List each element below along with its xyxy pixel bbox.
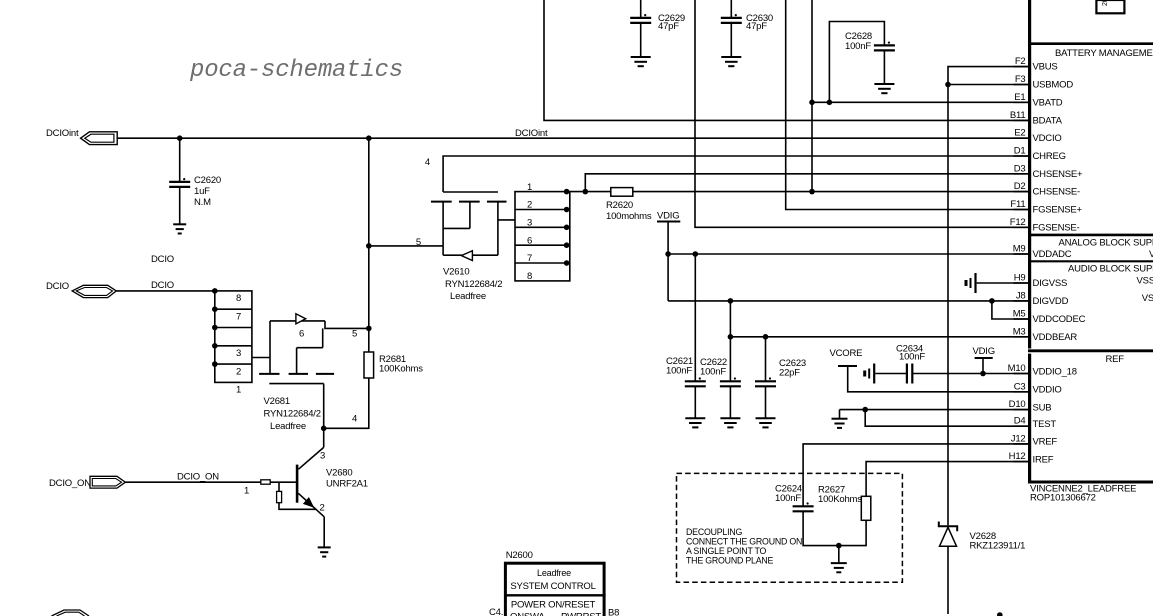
svg-text:poca-schematics: poca-schematics: [189, 57, 403, 84]
IC N2600 system control box: [489, 550, 619, 616]
pin F2 VBUS: [1014, 56, 1058, 73]
svg-text:4: 4: [352, 414, 357, 425]
ground V2680: [318, 547, 331, 556]
wire E1 VBATD row: [811, 101, 1028, 103]
wire D10 SUB row: [840, 407, 1029, 413]
svg-text:M3: M3: [1013, 326, 1026, 337]
svg-text:1uF: 1uF: [194, 186, 210, 197]
svg-text:CHSENSE+: CHSENSE+: [1033, 169, 1084, 180]
svg-text:C3: C3: [1014, 381, 1026, 392]
svg-text:VDIG: VDIG: [973, 346, 995, 357]
svg-text:VDDADC: VDDADC: [1033, 249, 1072, 260]
port partial bottom-left: [52, 610, 90, 616]
label V2681: [264, 396, 321, 432]
svg-text:DCIO: DCIO: [46, 281, 69, 292]
wire DCIOint bus vertical: [366, 138, 372, 328]
svg-text:3: 3: [320, 451, 325, 462]
connector block V2610 pins: [515, 182, 570, 282]
ground C2630: [721, 57, 741, 66]
svg-text:VCORE: VCORE: [830, 348, 863, 359]
svg-text:1: 1: [244, 486, 249, 497]
wire C2628 branch: [827, 22, 885, 106]
IC section headers: [1055, 48, 1153, 365]
svg-text:D3: D3: [1014, 163, 1026, 174]
svg-text:F12: F12: [1010, 217, 1026, 228]
IC top-right small box: [1096, 0, 1124, 13]
svg-text:F11: F11: [1010, 199, 1025, 210]
svg-text:4: 4: [425, 157, 430, 168]
svg-text:ANALOG BLOCK SUPPLY: ANALOG BLOCK SUPPLY: [1059, 237, 1153, 248]
pin D2 CHSENSE-: [1014, 181, 1081, 198]
transistor V2681: [259, 314, 369, 429]
svg-text:M5: M5: [1013, 309, 1026, 320]
wire block to V2681: [252, 357, 270, 359]
ground C2634 left: [865, 364, 875, 384]
svg-text:C4.: C4.: [489, 607, 503, 616]
svg-text:VDCIO: VDCIO: [1033, 133, 1062, 144]
svg-text:Leadfree: Leadfree: [537, 568, 571, 578]
svg-text:6: 6: [299, 329, 304, 340]
svg-text:1: 1: [527, 182, 532, 193]
svg-text:VDIG: VDIG: [657, 211, 679, 222]
svg-text:100mohms: 100mohms: [606, 211, 652, 222]
pin D4 TEST: [1014, 416, 1057, 430]
capacitor C2630: [721, 0, 773, 57]
ground C2620: [173, 224, 186, 233]
svg-text:VDDIO_18: VDDIO_18: [1033, 366, 1077, 377]
net label DCIO: [151, 254, 174, 265]
svg-text:100nF: 100nF: [775, 493, 801, 504]
svg-text:VDDBEAR: VDDBEAR: [1033, 332, 1078, 343]
svg-text:8: 8: [236, 293, 241, 304]
wire J12 VREF net: [803, 444, 1028, 506]
svg-text:E2: E2: [1014, 128, 1025, 139]
pin M9 VDDADC: [1013, 244, 1072, 261]
svg-text:3: 3: [236, 348, 241, 359]
svg-text:D4: D4: [1014, 416, 1026, 427]
capacitor C2620: [169, 138, 221, 224]
svg-text:47pF: 47pF: [658, 21, 679, 32]
resistor R2681: [324, 326, 424, 429]
wire F2 VBUS net: [948, 67, 1028, 85]
power VDIG rail 1: [657, 211, 680, 301]
svg-text:M9: M9: [1013, 244, 1026, 255]
svg-text:100nF: 100nF: [666, 366, 692, 377]
svg-text:F3: F3: [1015, 74, 1026, 85]
wire F11 FGSENSE+ net: [786, 0, 1028, 210]
power VDIG rail 2: [973, 346, 995, 374]
svg-text:CHREG: CHREG: [1033, 151, 1066, 162]
wire D1 CHREG net: [425, 156, 1028, 192]
svg-text:THE GROUND PLANE: THE GROUND PLANE: [686, 556, 774, 566]
ground C2628: [874, 84, 894, 93]
ground C2622: [720, 418, 740, 427]
ground C2629: [631, 57, 651, 66]
svg-text:1: 1: [236, 385, 241, 396]
wire VBAT sense bus: [809, 0, 815, 194]
svg-text:VREF: VREF: [1033, 437, 1058, 448]
pin E1 VBATD: [1014, 92, 1063, 109]
transistor V2680: [261, 426, 327, 548]
IC right-edge labels: [1137, 249, 1153, 304]
pin D1 CHREG: [1014, 146, 1066, 163]
svg-text:REF: REF: [1106, 354, 1125, 365]
svg-text:V2610: V2610: [443, 267, 469, 278]
pin M3 VDDBEAR: [1013, 326, 1078, 343]
svg-text:VSSADC: VSSADC: [1149, 249, 1153, 260]
power VCORE rail: [830, 348, 1029, 392]
ground C2623: [756, 418, 776, 427]
capacitor C2634: [896, 344, 925, 384]
label V2680: [326, 468, 368, 490]
svg-text:8: 8: [527, 271, 532, 282]
svg-text:B8: B8: [608, 608, 619, 616]
svg-text:IREF: IREF: [1033, 454, 1054, 465]
svg-text:DIGVDD: DIGVDD: [1033, 296, 1069, 307]
svg-text:VSSA: VSSA: [1137, 276, 1153, 287]
pin D3 CHSENSE+: [1014, 163, 1084, 180]
wire J8 DIGVDD row: [668, 298, 1028, 304]
wire DCIO to V2681 pin block: [116, 280, 215, 291]
pin M5 VDDCODEC: [1013, 309, 1086, 326]
svg-text:5: 5: [416, 237, 421, 248]
svg-text:E1: E1: [1014, 92, 1025, 103]
wire DCIOint net to pin E2: [117, 128, 1028, 141]
svg-text:DCIO_ON: DCIO_ON: [177, 472, 219, 483]
svg-text:D1: D1: [1014, 146, 1026, 157]
svg-text:RKZ123911/1: RKZ123911/1: [970, 541, 1026, 552]
wire M10 VDDIO_18 row: [913, 371, 1028, 377]
capacitor C2621: [666, 254, 706, 418]
label V2680 pins: [320, 451, 326, 514]
svg-text:CONNECT THE GROUND ON: CONNECT THE GROUND ON: [686, 537, 802, 547]
svg-text:A SINGLE POINT TO: A SINGLE POINT TO: [686, 546, 767, 556]
svg-text:VSSD: VSSD: [1142, 293, 1153, 304]
diode V2628 zener: [939, 522, 1025, 615]
svg-text:6: 6: [527, 235, 532, 246]
svg-text:100Kohms: 100Kohms: [379, 364, 423, 375]
pin M10 VDDIO_18: [1008, 363, 1077, 377]
svg-text:CHSENSE-: CHSENSE-: [1033, 187, 1081, 198]
wire B11 BDATA net: [544, 0, 1028, 120]
svg-text:POWER ON/RESET: POWER ON/RESET: [511, 600, 596, 611]
svg-text:22pF: 22pF: [779, 368, 800, 379]
svg-text:2: 2: [527, 200, 532, 211]
resistor R2620: [606, 188, 652, 222]
svg-text:R2620: R2620: [606, 200, 633, 211]
svg-text:UNRF2A1: UNRF2A1: [326, 479, 368, 490]
port DCIO: [46, 281, 116, 298]
pin F11 FGSENSE+: [1010, 199, 1082, 216]
text decoupling note: [686, 527, 802, 566]
svg-text:M10: M10: [1008, 363, 1026, 374]
svg-text:100nF: 100nF: [845, 41, 871, 52]
svg-text:VBUS: VBUS: [1033, 62, 1058, 73]
IC U2600 VINCENNE2 outline: [1028, 0, 1153, 482]
svg-text:100nF: 100nF: [899, 352, 925, 363]
svg-text:FGSENSE-: FGSENSE-: [1033, 222, 1080, 233]
wire D3 CHSENSE+ net: [585, 174, 1028, 192]
pin C3 VDDIO: [1014, 381, 1062, 395]
svg-text:ROP101306672: ROP101306672: [1030, 493, 1096, 504]
node decoupling ground junction: [836, 543, 842, 563]
svg-text:B11: B11: [1010, 110, 1026, 121]
ground SUB: [832, 410, 848, 428]
label V2610: [443, 267, 502, 303]
svg-text:DCIO: DCIO: [151, 280, 174, 291]
svg-text:2: 2: [236, 366, 241, 377]
pin H9 DIGVSS: [1014, 273, 1068, 290]
svg-text:J12: J12: [1011, 433, 1026, 444]
wire F3 USBMOD row: [945, 82, 1028, 88]
wire D2 left segment: [570, 189, 611, 195]
svg-text:ONSWA: ONSWA: [510, 612, 545, 616]
wire M5 branch: [992, 301, 1028, 319]
capacitor C2629: [630, 0, 685, 57]
pin J8 DIGVDD: [1014, 290, 1069, 307]
pin D10 SUB: [1009, 399, 1052, 413]
svg-text:5: 5: [352, 329, 357, 340]
svg-text:Leadfree: Leadfree: [270, 421, 306, 432]
svg-text:DECOUPLING: DECOUPLING: [686, 527, 743, 537]
svg-text:PWRRST: PWRRST: [561, 612, 601, 616]
label V2681 pin numbers: [299, 329, 357, 425]
svg-text:VDDIO: VDDIO: [1033, 385, 1062, 396]
svg-text:Leadfree: Leadfree: [450, 291, 486, 302]
wire M3 VDDBEAR row: [728, 334, 1028, 340]
svg-text:RYN122684/2: RYN122684/2: [264, 409, 321, 420]
wire D4 TEST branch: [865, 410, 1028, 427]
pin B11 BDATA: [1010, 110, 1063, 127]
wire node 5 to V2610: [369, 237, 443, 248]
svg-text:SUB: SUB: [1033, 402, 1052, 413]
svg-text:RYN122684/2: RYN122684/2: [445, 279, 502, 290]
svg-text:DCIOint: DCIOint: [515, 128, 548, 139]
port DCIO_ON: [49, 476, 125, 489]
pin J12 VREF: [1011, 433, 1058, 447]
svg-text:N2600: N2600: [506, 550, 533, 561]
wire DCIO_ON to base resistor: [125, 472, 260, 497]
title text poca-schematics: [189, 57, 403, 84]
pin F12 FGSENSE-: [1010, 217, 1080, 234]
ground DIGVSS: [966, 273, 976, 293]
wire VBUS vertical to V2628: [947, 85, 949, 526]
svg-text:7: 7: [236, 311, 241, 322]
capacitor C2628: [845, 31, 895, 84]
svg-text:47pF: 47pF: [746, 21, 767, 32]
node bottom junction: [997, 612, 1003, 616]
svg-text:H12: H12: [1009, 451, 1026, 462]
connector block V2681 pins: [212, 288, 252, 396]
wire H9 DIGVSS row: [977, 282, 1028, 284]
ground C2621: [685, 418, 705, 427]
svg-text:V2681: V2681: [264, 396, 290, 407]
svg-text:DCIO: DCIO: [151, 254, 174, 265]
svg-text:J8: J8: [1016, 290, 1026, 301]
wire F12 FGSENSE- net: [695, 0, 1028, 227]
svg-text:VDDCODEC: VDDCODEC: [1033, 314, 1086, 325]
dashed box decoupling note: [677, 473, 903, 582]
svg-text:TEST: TEST: [1033, 419, 1057, 430]
svg-text:2: 2: [320, 503, 325, 514]
capacitor C2623: [755, 337, 806, 418]
svg-text:100nF: 100nF: [700, 367, 726, 378]
pin F3 USBMOD: [1014, 74, 1074, 91]
capacitor C2624: [775, 484, 839, 546]
svg-text:100Kohms: 100Kohms: [818, 494, 862, 505]
pin E2 VDCIO: [1014, 128, 1062, 145]
wire M9 VDDADC row: [665, 251, 1028, 257]
svg-text:AUDIO BLOCK SUPPLY: AUDIO BLOCK SUPPLY: [1068, 264, 1153, 275]
svg-text:BATTERY MANAGEMENT: BATTERY MANAGEMENT: [1055, 48, 1153, 59]
capacitor C2622: [700, 301, 741, 418]
wire gnd to C2634: [875, 373, 906, 375]
svg-text:D10: D10: [1009, 399, 1026, 410]
wire D2 CHSENSE- row: [633, 191, 1028, 193]
port DCIOint: [46, 128, 117, 145]
svg-text:7: 7: [527, 253, 532, 264]
svg-text:V2680: V2680: [326, 468, 352, 479]
wire H12 IREF net: [866, 462, 1028, 497]
svg-text:FGSENSE+: FGSENSE+: [1033, 205, 1083, 216]
svg-text:DCIOint: DCIOint: [46, 128, 79, 139]
svg-text:N.M: N.M: [194, 197, 211, 208]
svg-text:USBMOD: USBMOD: [1033, 80, 1074, 91]
ground decoupling: [831, 563, 847, 572]
pin H12 IREF: [1009, 451, 1054, 465]
svg-text:VBATD: VBATD: [1033, 97, 1063, 108]
svg-text:20: 20: [1102, 0, 1109, 6]
svg-text:F2: F2: [1015, 56, 1026, 67]
svg-text:D2: D2: [1014, 181, 1026, 192]
IC part number: [1030, 484, 1136, 504]
svg-text:DCIO_ON: DCIO_ON: [49, 478, 91, 489]
svg-text:DIGVSS: DIGVSS: [1033, 278, 1068, 289]
svg-text:SYSTEM CONTROL: SYSTEM CONTROL: [510, 581, 595, 592]
svg-text:C2620: C2620: [194, 175, 221, 186]
resistor R2627: [818, 485, 871, 546]
svg-text:3: 3: [527, 218, 532, 229]
transistor V2610: [431, 192, 515, 261]
svg-text:H9: H9: [1014, 273, 1026, 284]
svg-text:BDATA: BDATA: [1033, 115, 1063, 126]
